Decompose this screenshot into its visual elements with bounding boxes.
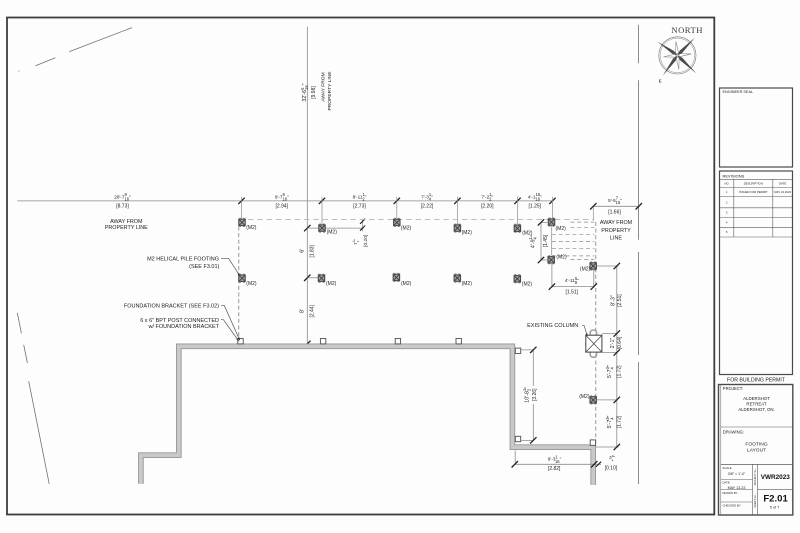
svg-text:[1.25]: [1.25]	[529, 204, 542, 210]
svg-text:M2 HELICAL PILE FOOTING: M2 HELICAL PILE FOOTING	[147, 257, 219, 263]
svg-text:(M2): (M2)	[401, 281, 412, 287]
tick at x=457.4 on top dimension line	[454, 198, 460, 204]
svg-text:MAY 24 2023: MAY 24 2023	[774, 190, 791, 194]
top dimension line	[17, 200, 552, 202]
footing M2 row1-3	[394, 218, 400, 226]
svg-text:[2.94]: [2.94]	[276, 204, 289, 210]
svg-text:DRAWN BY: DRAWN BY	[723, 491, 738, 495]
svg-text:DATE: DATE	[723, 480, 730, 484]
svg-text:32'-6516": 32'-6516"	[300, 83, 309, 101]
connector line row2 to footing	[307, 277, 318, 279]
leader 6x6 post	[221, 320, 239, 341]
existing column symbol	[586, 330, 602, 357]
tick right chain y=447	[614, 444, 620, 450]
svg-text:6 x 6" BPT POST CONNECTED: 6 x 6" BPT POST CONNECTED	[140, 318, 219, 324]
footing M2 row1-1	[239, 218, 245, 226]
leader foundation bracket	[221, 305, 240, 340]
svg-text:[1.45]: [1.45]	[543, 234, 549, 247]
svg-text:(M2): (M2)	[246, 281, 257, 287]
svg-text:(M2): (M2)	[580, 266, 591, 272]
svg-text:PROPERTY LINE: PROPERTY LINE	[327, 71, 333, 111]
footing M2 row2-2	[318, 274, 324, 282]
svg-text:10'-812": 10'-812"	[522, 387, 531, 403]
right dimension chain line	[596, 266, 619, 447]
svg-text:[2.73]: [2.73]	[353, 204, 366, 210]
svg-text:[0.20]: [0.20]	[363, 235, 369, 247]
revisions table lines	[720, 179, 793, 237]
extension lines from top dimension line to footings	[242, 197, 553, 225]
tick footing row2 on x=307.3	[304, 275, 310, 281]
svg-text:(M2): (M2)	[246, 225, 257, 231]
svg-text:[0.64]: [0.64]	[617, 336, 623, 349]
svg-text:ISSUED FOR PERMIT: ISSUED FOR PERMIT	[739, 190, 768, 194]
svg-text:LAYOUT: LAYOUT	[747, 447, 766, 453]
svg-text:EXISTING COLUMN: EXISTING COLUMN	[527, 323, 578, 329]
svg-text:(M2): (M2)	[401, 226, 412, 232]
svg-text:[2.44]: [2.44]	[309, 304, 315, 317]
svg-text:PROPERTY LINE: PROPERTY LINE	[105, 225, 148, 231]
svg-text:REVISIONS: REVISIONS	[723, 174, 745, 179]
tick right chain y=333.5	[614, 330, 620, 336]
post on east wall lower	[515, 436, 520, 441]
svg-text:DRAWING:: DRAWING:	[723, 430, 744, 435]
svg-text:(M2): (M2)	[462, 230, 473, 236]
svg-text:5 of 7: 5 of 7	[770, 505, 780, 509]
footing M2 row1-2	[319, 224, 325, 232]
svg-text:[0.10]: [0.10]	[605, 465, 618, 471]
svg-text:AWAY FROM: AWAY FROM	[110, 219, 143, 225]
svg-text:(M2): (M2)	[522, 282, 533, 288]
svg-text:F2.01: F2.01	[763, 493, 788, 504]
svg-text:FOOTING: FOOTING	[745, 441, 767, 447]
tick wall on x=307.3	[304, 341, 310, 347]
svg-text:FOUNDATION BRACKET (SEE F3.02): FOUNDATION BRACKET (SEE F3.02)	[124, 303, 219, 309]
footing M2 row2-3	[393, 273, 399, 281]
existing stair dashed lines	[552, 222, 594, 260]
tick right chain y=266	[614, 263, 620, 269]
property line left (diagonal)	[17, 313, 49, 484]
dashed line footing F1 down to post	[238, 227, 240, 341]
property line right (vertical)	[638, 25, 640, 484]
leader M2 helical	[221, 258, 240, 276]
svg-text:VWR2023: VWR2023	[761, 474, 791, 481]
svg-text:[2.20]: [2.20]	[481, 204, 494, 210]
svg-text:PROJECT:: PROJECT:	[723, 386, 743, 391]
svg-text:LINE: LINE	[610, 236, 622, 242]
svg-text:PROJECT No.: PROJECT No.	[753, 468, 757, 485]
leader existing column	[582, 326, 587, 336]
tick at x=517.5 on top dimension line	[514, 198, 520, 204]
svg-text:SHEET No.: SHEET No.	[753, 494, 757, 508]
svg-text:CHECKED BY: CHECKED BY	[723, 503, 741, 507]
svg-text:[1.72]: [1.72]	[616, 415, 622, 428]
connector line row1 through footing F2	[307, 227, 363, 229]
svg-text:NORTH: NORTH	[671, 25, 703, 35]
post on wall 4	[456, 339, 461, 344]
svg-text:8': 8'	[299, 309, 305, 313]
dashed footing alignment line (horizontal)	[239, 218, 595, 220]
vertical extension line 32'-6 AWAY FROM PROPERTY LINE	[306, 27, 308, 345]
svg-text:DATE: DATE	[779, 182, 786, 186]
tick at x=552.5 on top dimension line	[549, 198, 555, 204]
post at SE corner	[590, 440, 595, 445]
footing M2 row2-4	[454, 274, 460, 282]
dimension 4-11 5/8 [1.51]	[552, 263, 594, 288]
tick right chain y=352.5	[614, 349, 620, 355]
svg-text:ALDERSHOT, ON.: ALDERSHOT, ON.	[738, 407, 775, 412]
svg-text:2'-1": 2'-1"	[610, 338, 616, 349]
svg-text:[1.66]: [1.66]	[608, 209, 621, 215]
svg-text:(M2): (M2)	[326, 281, 337, 287]
dimension 5-5 7/16 [1.66] line	[593, 205, 639, 207]
tick at x=241.5 on top dimension line	[238, 198, 244, 204]
svg-text:(M2): (M2)	[327, 230, 338, 236]
svg-text:AWAY FROM: AWAY FROM	[321, 72, 327, 101]
svg-text:AWAY FROM: AWAY FROM	[600, 220, 633, 226]
svg-text:(M2): (M2)	[556, 255, 567, 261]
footing M2 east	[590, 262, 596, 270]
svg-text:[1.72]: [1.72]	[616, 365, 622, 378]
svg-text:(SEE F3.01): (SEE F3.01)	[189, 264, 219, 270]
svg-text:[2.51]: [2.51]	[617, 294, 623, 307]
tick right chain y=399.9	[614, 397, 620, 403]
dimension 4-9 1/4 [1.45]	[541, 222, 548, 260]
svg-text:6': 6'	[299, 249, 305, 253]
project box	[719, 385, 793, 516]
svg-text:[2.22]: [2.22]	[421, 204, 434, 210]
compass rose	[657, 37, 696, 76]
footing M2 row2-5	[514, 275, 520, 283]
svg-text:4'-914": 4'-914"	[528, 235, 537, 248]
dimension 10-8 1/2 [3.26]	[521, 350, 534, 441]
svg-text:3/8" = 1'-0": 3/8" = 1'-0"	[728, 472, 746, 476]
svg-text:5'-734": 5'-734"	[605, 415, 614, 428]
post on wall 2	[320, 339, 325, 344]
svg-text:ALDERSHOT: ALDERSHOT	[743, 396, 770, 401]
svg-text:w/ FOUNDATION BRACKET: w/ FOUNDATION BRACKET	[148, 324, 220, 330]
tick at x=396.8 on top dimension line	[394, 198, 400, 204]
svg-text:[1.83]: [1.83]	[309, 244, 315, 257]
svg-text:FOR BUILDING PERMIT: FOR BUILDING PERMIT	[727, 378, 786, 384]
footing M2 stair-bottom	[548, 256, 554, 264]
dashed line right column through existing column	[595, 222, 597, 446]
svg-text:8'-3": 8'-3"	[611, 295, 617, 306]
svg-text:E: E	[659, 79, 662, 84]
post on wall 3	[395, 339, 400, 344]
footing M2 row1-5	[514, 224, 520, 232]
footing M2 south	[590, 396, 596, 404]
svg-text:[1.51]: [1.51]	[566, 289, 579, 295]
property line top-left (diagonal)	[18, 28, 132, 72]
tick footing row1 on x=307.3	[304, 225, 310, 231]
svg-text:MAY 13-23: MAY 13-23	[728, 486, 746, 490]
svg-text:SCALE: SCALE	[723, 466, 732, 470]
svg-text:5'-734": 5'-734"	[605, 365, 614, 378]
svg-text:[8.73]: [8.73]	[116, 204, 129, 210]
post on wall 1	[238, 339, 243, 344]
svg-text:(M2): (M2)	[579, 394, 590, 400]
extension line between stair footings	[551, 227, 553, 256]
svg-text:DESCRIPTION: DESCRIPTION	[744, 182, 763, 186]
offset dimension 7 3/4 [0.20]	[362, 220, 364, 232]
footing M2 stair-top	[548, 218, 554, 226]
svg-text:ENGINEER SEAL: ENGINEER SEAL	[723, 90, 754, 94]
svg-text:(M2): (M2)	[462, 281, 473, 287]
svg-text:RETREAT: RETREAT	[746, 401, 766, 406]
dimension 9-3 1/16 [2.82]	[515, 451, 601, 465]
engineer seal box	[720, 88, 793, 167]
svg-text:PROPERTY: PROPERTY	[601, 228, 631, 234]
svg-text:[3.26]: [3.26]	[532, 388, 538, 401]
post on east wall upper	[515, 348, 520, 353]
existing building wall outline	[141, 346, 593, 485]
revisions box	[720, 171, 793, 375]
tick at x=322 on top dimension line	[319, 198, 325, 204]
svg-text:[9.98]: [9.98]	[311, 86, 317, 99]
svg-text:(M2): (M2)	[556, 226, 567, 232]
svg-text:[2.82]: [2.82]	[548, 466, 561, 472]
footing M2 row1-4	[454, 224, 460, 232]
footing M2 row2-1	[239, 274, 245, 282]
